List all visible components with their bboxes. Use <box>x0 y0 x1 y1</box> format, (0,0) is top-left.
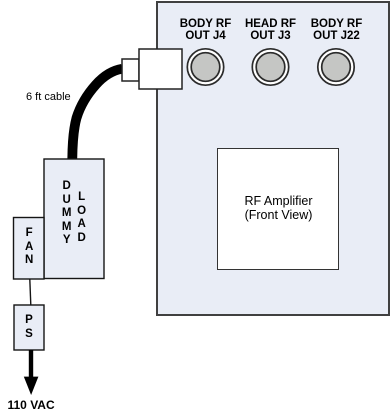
connector J4 outer ring <box>187 49 223 85</box>
cable connector large block <box>139 49 182 89</box>
label LOAD <box>72 191 92 245</box>
label PS <box>19 314 39 341</box>
connector J4 inner <box>191 53 220 82</box>
label BODY RF OUT J4 <box>166 18 246 42</box>
label DUMMY <box>57 180 77 248</box>
label FAN <box>19 227 39 268</box>
connector J3 outer ring <box>252 49 288 85</box>
RF amplifier front view box <box>217 148 339 270</box>
label 110 VAC <box>8 398 55 412</box>
label HEAD RF OUT J3 <box>231 18 311 42</box>
connector J22 inner <box>322 53 351 82</box>
label BODY RF OUT J22 <box>297 18 377 42</box>
cable connector small block <box>122 59 139 81</box>
label RF Amplifier (Front View) <box>239 195 319 222</box>
arrow to 110 VAC <box>29 350 33 378</box>
6 ft cable <box>72 69 122 159</box>
connector J3 inner <box>256 53 285 82</box>
RF amplifier panel <box>156 1 390 316</box>
dummy load box <box>44 159 104 279</box>
power supply box <box>14 305 44 350</box>
label 6 ft cable <box>26 91 71 103</box>
connector J22 outer ring <box>318 49 354 85</box>
fan box <box>14 218 45 280</box>
wire fan to ps <box>30 279 31 305</box>
